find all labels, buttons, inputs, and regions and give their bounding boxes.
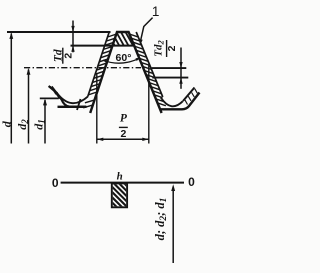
left partial band hatching	[50, 86, 52, 90]
right root arc (rounded root profile)	[161, 98, 183, 107]
left root flat bottom thick line	[58, 106, 87, 108]
d2 pitch dash-dot line	[24, 67, 141, 69]
leader line for callout 1	[141, 18, 153, 41]
left flank tolerance mid line	[88, 32, 109, 97]
label Td/2 fraction (rotated)	[52, 48, 74, 64]
label d2 (rotated)	[15, 119, 30, 130]
left crest flank band hatching	[108, 34, 116, 37]
svg-text:0: 0	[52, 176, 59, 190]
P/2 dimension line	[97, 138, 149, 140]
svg-text:60°: 60°	[116, 52, 132, 64]
svg-text:P: P	[120, 112, 128, 124]
d2 tolerance upper line right	[152, 67, 187, 69]
svg-text:0: 0	[188, 175, 195, 189]
60 degree angle arc	[103, 58, 141, 63]
Td/2 dimension with outside arrows	[72, 21, 74, 53]
thread basic profile outer outline: left root flat, left flank, crest flat, right flank, right root flat, far-right rise	[64, 32, 200, 113]
dimension line d	[10, 34, 12, 144]
dimension line d1	[44, 100, 46, 144]
label d1 (rotated)	[31, 119, 46, 130]
right flank tolerance mid line	[136, 32, 163, 97]
left partial flank band lower line	[52, 87, 69, 107]
crest tolerance zone bottom line (Td boundary)	[71, 45, 136, 47]
d1 level line	[40, 97, 59, 99]
diameter reference arrow pointing to axis	[172, 187, 174, 263]
hatched rectangle h below axis	[87, 182, 156, 209]
svg-text:d: d	[0, 120, 13, 127]
left root band hatching	[85, 100, 94, 103]
Td2/2 dimension with outside arrows	[180, 48, 182, 89]
P/2 extension line left	[96, 73, 98, 144]
svg-text:h: h	[117, 171, 123, 183]
P/2 extension line right	[148, 65, 150, 144]
right crest flank band hatching	[130, 34, 138, 37]
left root min profile stub	[77, 99, 81, 110]
svg-text:2: 2	[120, 128, 126, 140]
far right rising band inner line	[183, 88, 195, 102]
far right band hatching	[185, 100, 188, 105]
label d d2 d1 (rotated)	[153, 198, 169, 241]
d crest level line	[7, 31, 111, 33]
dimension line d2	[28, 70, 30, 144]
axis line 0-0 of bottom diagram	[61, 182, 184, 184]
label Td2/2 fraction (rotated)	[153, 40, 179, 57]
svg-text:1: 1	[152, 4, 160, 19]
svg-text:2: 2	[166, 45, 178, 51]
svg-text:2: 2	[62, 53, 74, 59]
crest tolerance zone hatching	[106, 30, 144, 48]
d2 tolerance lower line right	[152, 77, 188, 79]
left partial flank band upper line	[49, 86, 58, 93]
label d (rotated)	[0, 120, 13, 127]
left root arc (rounded root profile)	[57, 93, 88, 103]
